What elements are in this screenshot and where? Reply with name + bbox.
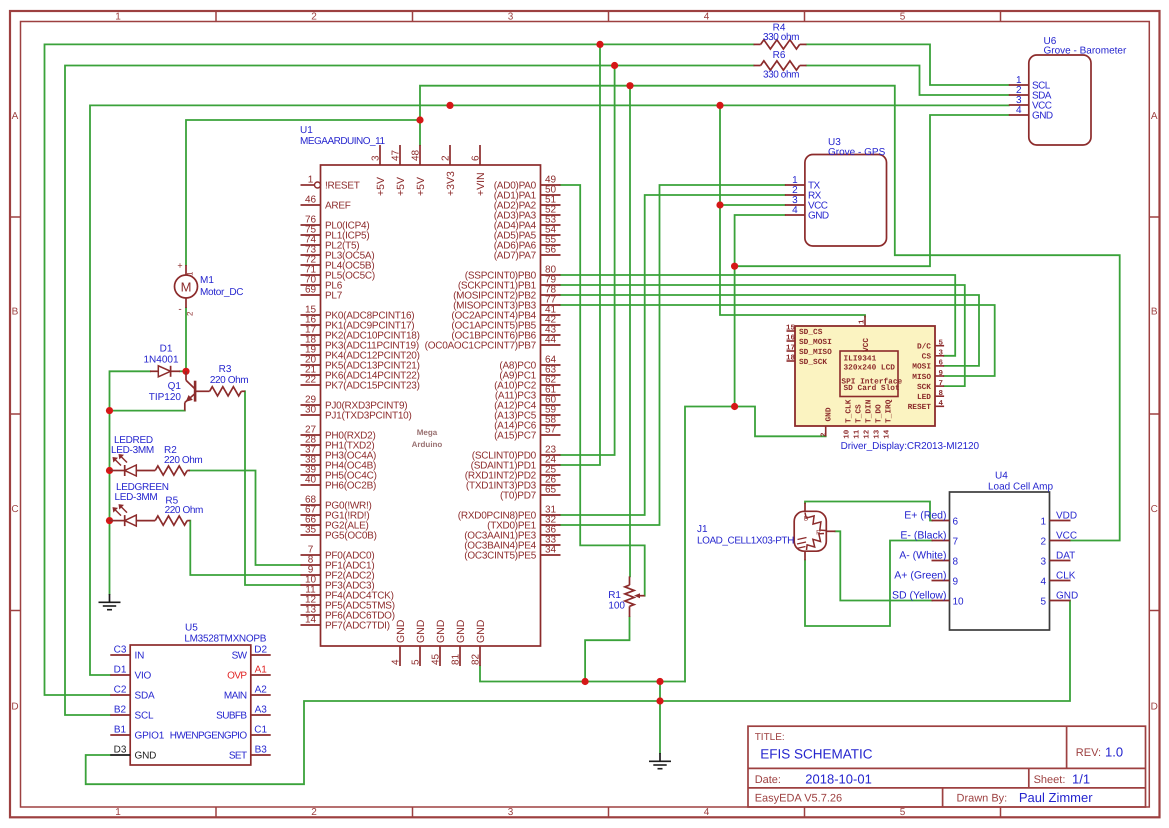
svg-text:D3: D3 — [114, 745, 127, 756]
svg-text:10: 10 — [953, 597, 965, 608]
svg-text:MEGAARDUINO_11: MEGAARDUINO_11 — [300, 136, 385, 147]
svg-text:18: 18 — [786, 354, 796, 363]
svg-text:-: - — [178, 304, 181, 315]
svg-text:PF7(ADC7TDI): PF7(ADC7TDI) — [325, 621, 390, 632]
svg-text:B1: B1 — [114, 725, 127, 736]
svg-text:C: C — [1151, 504, 1158, 515]
svg-text:47: 47 — [391, 149, 402, 161]
svg-text:MISO: MISO — [912, 373, 931, 382]
svg-text:RESET: RESET — [908, 403, 932, 412]
svg-text:GND: GND — [135, 751, 157, 762]
svg-text:+3V3: +3V3 — [445, 171, 457, 196]
svg-text:B: B — [804, 516, 808, 523]
svg-text:Drawn By:: Drawn By: — [957, 793, 1008, 805]
svg-text:220 Ohm: 220 Ohm — [164, 455, 202, 466]
svg-text:3: 3 — [1040, 557, 1046, 568]
svg-text:Date:: Date: — [755, 774, 781, 786]
svg-text:SDA: SDA — [135, 691, 155, 702]
svg-text:100: 100 — [608, 601, 625, 612]
svg-text:1/1: 1/1 — [1072, 772, 1090, 787]
svg-text:6: 6 — [953, 517, 959, 528]
svg-text:7: 7 — [939, 380, 944, 388]
svg-text:6: 6 — [471, 155, 482, 161]
svg-text:SCL: SCL — [135, 711, 154, 722]
svg-text:D1: D1 — [114, 665, 127, 676]
svg-text:A2: A2 — [255, 685, 268, 696]
svg-text:56: 56 — [545, 245, 557, 256]
svg-text:2: 2 — [311, 807, 317, 818]
svg-text:65: 65 — [545, 485, 557, 496]
svg-text:9: 9 — [939, 369, 944, 378]
svg-text:U4: U4 — [995, 471, 1008, 482]
svg-text:R: R — [816, 530, 821, 537]
svg-text:OVP: OVP — [227, 671, 247, 682]
svg-text:9: 9 — [953, 577, 959, 588]
svg-text:34: 34 — [545, 545, 557, 556]
svg-text:VCC: VCC — [1056, 531, 1077, 542]
svg-text:SCK: SCK — [917, 383, 931, 392]
svg-text:(OC0AOC1CPCINT7)PB7: (OC0AOC1CPCINT7)PB7 — [425, 341, 537, 352]
svg-text:TITLE:: TITLE: — [755, 732, 785, 743]
svg-text:GND: GND — [1032, 111, 1053, 122]
svg-text:T_DO: T_DO — [874, 404, 883, 423]
svg-text:E- (Black): E- (Black) — [900, 530, 946, 542]
svg-text:30: 30 — [305, 405, 317, 416]
svg-text:PL7: PL7 — [325, 291, 343, 302]
svg-text:C1: C1 — [254, 725, 267, 736]
svg-text:Grove - GPS: Grove - GPS — [828, 147, 886, 158]
svg-text:B3: B3 — [255, 745, 268, 756]
svg-text:22: 22 — [305, 375, 317, 386]
svg-text:T_IRQ: T_IRQ — [884, 399, 893, 423]
svg-text:SUBFB: SUBFB — [216, 711, 247, 722]
svg-text:A1: A1 — [255, 665, 268, 676]
svg-text:A: A — [12, 111, 19, 122]
svg-text:CLK: CLK — [1056, 571, 1076, 582]
svg-text:2: 2 — [819, 432, 828, 437]
svg-text:5: 5 — [411, 659, 422, 665]
svg-text:+: + — [177, 261, 182, 271]
svg-text:U1: U1 — [300, 125, 313, 136]
svg-text:1.0: 1.0 — [1105, 745, 1123, 760]
svg-text:SD_SCK: SD_SCK — [799, 358, 827, 367]
svg-text:VCC: VCC — [862, 338, 871, 352]
svg-text:12: 12 — [863, 429, 872, 439]
svg-text:D2: D2 — [254, 645, 267, 656]
svg-text:13: 13 — [873, 429, 882, 439]
svg-text:HWENPGENGPIO: HWENPGENGPIO — [170, 731, 248, 742]
svg-text:+VIN: +VIN — [475, 172, 487, 196]
svg-text:2018-10-01: 2018-10-01 — [805, 772, 872, 787]
svg-text:(A15)PC7: (A15)PC7 — [494, 431, 537, 442]
svg-text:GND: GND — [1056, 591, 1078, 602]
svg-text:SET: SET — [229, 751, 247, 762]
svg-text:16: 16 — [786, 334, 796, 343]
svg-text:PJ1(TXD3PCINT10): PJ1(TXD3PCINT10) — [325, 411, 412, 422]
svg-text:TIP120: TIP120 — [149, 392, 182, 403]
svg-text:Q1: Q1 — [168, 381, 182, 392]
svg-text:Grove - Barometer: Grove - Barometer — [1044, 46, 1127, 57]
svg-text:C3: C3 — [114, 645, 127, 656]
svg-text:1: 1 — [1040, 517, 1046, 528]
svg-text:T_CLK: T_CLK — [844, 399, 853, 423]
svg-text:82: 82 — [471, 653, 482, 665]
svg-text:(OC3CINT5)PE5: (OC3CINT5)PE5 — [464, 551, 536, 562]
svg-text:T_DIN: T_DIN — [864, 399, 873, 423]
svg-text:SD_CS: SD_CS — [799, 328, 823, 337]
svg-text:44: 44 — [545, 335, 557, 346]
svg-text:B: B — [1151, 307, 1158, 318]
svg-text:2: 2 — [186, 311, 195, 316]
svg-text:R1: R1 — [608, 590, 621, 601]
svg-text:8: 8 — [953, 557, 959, 568]
svg-text:MOSI: MOSI — [912, 363, 931, 372]
svg-text:CS: CS — [922, 353, 932, 362]
svg-text:SD_MOSI: SD_MOSI — [799, 338, 832, 347]
svg-text:1N4001: 1N4001 — [143, 355, 178, 366]
svg-text:46: 46 — [305, 195, 317, 206]
svg-text:C: C — [11, 504, 18, 515]
svg-text:14: 14 — [305, 615, 317, 626]
svg-text:C2: C2 — [114, 685, 127, 696]
svg-text:SD (Yellow): SD (Yellow) — [892, 590, 946, 602]
svg-text:GND: GND — [808, 211, 829, 222]
svg-text:3: 3 — [508, 12, 514, 23]
svg-text:R6: R6 — [773, 50, 786, 61]
svg-text:(AD7)PA7: (AD7)PA7 — [494, 251, 537, 262]
svg-text:LM3528TMXNOPB: LM3528TMXNOPB — [184, 634, 266, 645]
svg-text:!RESET: !RESET — [325, 181, 360, 192]
svg-text:81: 81 — [451, 653, 462, 665]
svg-text:40: 40 — [305, 475, 317, 486]
svg-text:GND: GND — [435, 619, 447, 643]
svg-text:A: A — [1151, 111, 1158, 122]
svg-text:MAIN: MAIN — [224, 691, 247, 702]
svg-text:SW: SW — [232, 651, 248, 662]
svg-text:REV:: REV: — [1076, 747, 1101, 759]
svg-text:GND: GND — [395, 619, 407, 643]
svg-text:35: 35 — [305, 525, 317, 536]
svg-text:17: 17 — [786, 345, 795, 353]
svg-text:D: D — [1151, 702, 1158, 713]
svg-text:8: 8 — [939, 389, 944, 398]
svg-text:J1: J1 — [697, 524, 708, 535]
svg-text:2: 2 — [441, 155, 452, 161]
svg-text:4: 4 — [704, 807, 710, 818]
svg-text:5: 5 — [900, 12, 906, 23]
svg-text:1: 1 — [308, 175, 314, 186]
svg-text:GND: GND — [455, 619, 467, 643]
svg-text:Mega: Mega — [417, 428, 438, 437]
svg-text:330 ohm: 330 ohm — [763, 32, 799, 43]
svg-text:15: 15 — [786, 325, 796, 333]
svg-text:E+ (Red): E+ (Red) — [904, 510, 946, 522]
svg-text:+5V: +5V — [375, 177, 387, 196]
svg-text:3: 3 — [508, 807, 514, 818]
svg-text:4: 4 — [939, 400, 944, 408]
svg-text:1: 1 — [186, 271, 195, 276]
svg-text:1: 1 — [859, 319, 867, 324]
svg-text:4: 4 — [792, 205, 798, 216]
svg-text:PK7(ADC15PCINT23): PK7(ADC15PCINT23) — [325, 381, 420, 392]
svg-text:PG5(OC0B): PG5(OC0B) — [325, 531, 377, 542]
svg-text:220 Ohm: 220 Ohm — [210, 375, 248, 386]
svg-text:Load Cell Amp: Load Cell Amp — [988, 482, 1053, 493]
svg-text:Paul Zimmer: Paul Zimmer — [1019, 790, 1093, 805]
svg-text:LOAD_CELL1X03-PTH: LOAD_CELL1X03-PTH — [697, 536, 794, 547]
svg-text:4: 4 — [1016, 105, 1022, 116]
svg-text:GND: GND — [475, 619, 487, 643]
svg-text:A- (White): A- (White) — [899, 550, 946, 562]
svg-text:LED: LED — [917, 393, 931, 402]
svg-text:B: B — [12, 307, 19, 318]
svg-text:SD_MISO: SD_MISO — [799, 348, 832, 357]
svg-text:D/C: D/C — [917, 343, 931, 352]
svg-text:330 ohm: 330 ohm — [763, 70, 799, 81]
svg-text:+5V: +5V — [415, 177, 427, 196]
svg-text:IN: IN — [135, 651, 145, 662]
svg-text:DAT: DAT — [1056, 551, 1075, 562]
svg-text:2: 2 — [1040, 537, 1046, 548]
svg-text:4: 4 — [391, 659, 402, 665]
svg-text:1: 1 — [115, 12, 121, 23]
svg-text:4: 4 — [1040, 577, 1046, 588]
svg-text:EFIS SCHEMATIC: EFIS SCHEMATIC — [760, 747, 873, 762]
svg-text:B2: B2 — [114, 705, 127, 716]
svg-text:Arduino: Arduino — [412, 440, 443, 449]
svg-text:Sheet:: Sheet: — [1034, 774, 1066, 786]
svg-text:48: 48 — [411, 149, 422, 161]
svg-text:D: D — [11, 702, 18, 713]
svg-text:T_CS: T_CS — [854, 404, 863, 423]
svg-text:(T0)PD7: (T0)PD7 — [500, 491, 537, 502]
svg-text:VIO: VIO — [135, 671, 152, 682]
svg-text:SD Card Slot: SD Card Slot — [844, 384, 900, 393]
svg-text:GND: GND — [825, 407, 834, 421]
svg-text:LED-3MM: LED-3MM — [115, 492, 158, 503]
svg-text:3: 3 — [939, 349, 944, 358]
svg-text:AREF: AREF — [325, 201, 351, 212]
svg-text:220 Ohm: 220 Ohm — [165, 505, 203, 516]
svg-text:11: 11 — [854, 429, 862, 439]
svg-text:5: 5 — [939, 340, 944, 348]
svg-text:320x240 LCD: 320x240 LCD — [844, 363, 896, 372]
svg-text:45: 45 — [431, 653, 442, 665]
svg-text:GND: GND — [415, 619, 427, 643]
svg-text:10: 10 — [843, 429, 852, 439]
svg-text:5: 5 — [900, 807, 906, 818]
svg-text:EasyEDA V5.7.26: EasyEDA V5.7.26 — [755, 793, 842, 805]
svg-text:ILI9341: ILI9341 — [844, 355, 877, 364]
svg-text:GPIO1: GPIO1 — [135, 731, 165, 742]
svg-text:4: 4 — [704, 12, 710, 23]
svg-text:57: 57 — [545, 425, 557, 436]
svg-text:VDD: VDD — [1056, 511, 1077, 522]
svg-text:2: 2 — [311, 12, 317, 23]
svg-text:Motor_DC: Motor_DC — [200, 287, 243, 298]
svg-text:6: 6 — [939, 359, 944, 368]
svg-text:M1: M1 — [200, 275, 214, 286]
svg-text:A+ (Green): A+ (Green) — [894, 570, 946, 582]
svg-text:69: 69 — [305, 285, 317, 296]
svg-text:D1: D1 — [160, 344, 173, 355]
svg-text:U5: U5 — [185, 623, 198, 634]
svg-text:PH6(OC2B): PH6(OC2B) — [325, 481, 376, 492]
svg-text:7: 7 — [953, 537, 959, 548]
svg-text:14: 14 — [884, 429, 892, 439]
svg-text:1: 1 — [115, 807, 121, 818]
svg-text:A3: A3 — [255, 705, 268, 716]
svg-text:M: M — [181, 280, 192, 295]
svg-text:5: 5 — [1040, 597, 1046, 608]
svg-text:+5V: +5V — [395, 177, 407, 196]
svg-text:R3: R3 — [219, 364, 232, 375]
svg-text:LED-3MM: LED-3MM — [111, 445, 154, 456]
svg-text:Driver_Display:CR2013-MI2120: Driver_Display:CR2013-MI2120 — [841, 441, 980, 452]
svg-text:3: 3 — [371, 155, 382, 161]
